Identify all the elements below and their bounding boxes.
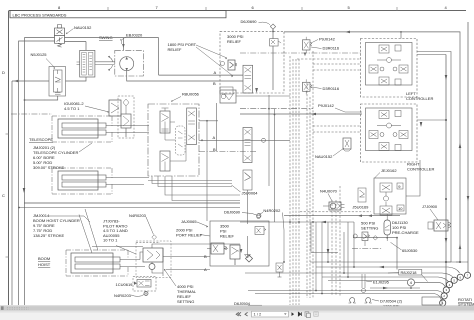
ladder horizontal wires [310, 262, 468, 273]
leader diagonals JMJ0014 to cylinder [79, 209, 98, 253]
left inlet components [121, 99, 131, 137]
bus line below bank box [148, 180, 232, 182]
valve at 344,138 [343, 138, 351, 151]
drain arrow [255, 88, 258, 93]
tall cartridge 2 [243, 128, 252, 163]
loop riser and port A line [159, 38, 243, 76]
dash-dot bus y=53 [240, 52, 362, 54]
flow arrows on ladder [379, 266, 384, 269]
port line A from bank [199, 139, 290, 141]
bottom right rect [422, 297, 442, 305]
terminal circles [440, 272, 471, 306]
prev btn [245, 312, 248, 316]
svg-text:C: C [2, 193, 5, 198]
dash-dot bus y=109 [240, 108, 313, 110]
numbered circle 4 [407, 279, 414, 286]
counterbalance dashed enclosure [136, 241, 171, 278]
grid ticks left [6, 133, 9, 135]
shaft coupling [95, 62, 115, 65]
JTJ0783 leader down [116, 246, 136, 255]
counterbalance valve boom [143, 248, 163, 262]
svg-text:CONTROLLER: CONTROLLER [406, 96, 433, 101]
small box lower left of relief box [220, 87, 233, 94]
relief valve inside box [207, 243, 228, 254]
grid ticks top [107, 7, 109, 11]
verticals from y222 to ladder [311, 222, 328, 294]
vertical drains center [269, 95, 275, 222]
page box [252, 311, 289, 317]
wire valve to loop riser [65, 37, 159, 39]
holding valve telescope [109, 100, 121, 116]
svg-text:D6J0690: D6J0690 [224, 210, 241, 215]
pump bottom wire [127, 71, 243, 81]
wire controller2 to bus [417, 119, 446, 121]
icon print [314, 312, 318, 316]
svg-text:E1J0295: E1J0295 [373, 279, 390, 284]
scrollbar band [0, 305, 474, 308]
svg-text:HOIST: HOIST [38, 262, 51, 267]
main boom spool [230, 245, 240, 265]
compensator dashed [176, 126, 186, 155]
bank internal wires [165, 122, 186, 161]
left border line [8, 11, 10, 306]
diamond bottom [246, 255, 253, 262]
svg-text:RELIEF: RELIEF [168, 47, 183, 52]
next btn [292, 312, 295, 316]
right vertical buses [467, 22, 469, 273]
svg-text:10: 10 [398, 206, 403, 211]
connect buses into ladder [446, 261, 460, 263]
drain valve on x=273 [270, 39, 279, 46]
N4U0070 motor [323, 202, 345, 210]
small cartridge left of JEJ block [358, 188, 366, 202]
svg-text:CONTROLLER: CONTROLLER [407, 167, 434, 172]
valve top right of bank [220, 90, 236, 103]
boom supply line [24, 202, 240, 204]
last page btn [298, 312, 301, 316]
svg-text:NAU0152: NAU0152 [315, 154, 333, 159]
svg-text:N4R0202: N4R0202 [263, 208, 281, 213]
R8J0218 boxed label [399, 270, 422, 276]
small comp center bottom [276, 263, 283, 277]
svg-text:N4U0070: N4U0070 [320, 189, 338, 194]
wire to NSJ0125 [12, 80, 49, 82]
thermal relief valve [144, 251, 146, 253]
svg-text:D3R0116: D3R0116 [323, 46, 340, 51]
wires controller to right [417, 52, 451, 263]
JEJ0162 block [374, 178, 406, 214]
relief valve A [228, 60, 237, 70]
svg-text:SETTING: SETTING [361, 226, 378, 231]
svg-text:N4R0203: N4R0203 [129, 213, 147, 218]
omega symbols [349, 298, 356, 303]
tall cartridge 1 [243, 65, 253, 93]
right controller dashed box [361, 104, 418, 162]
svg-text:309.00" STROKE: 309.00" STROKE [33, 165, 65, 170]
telescope dash-dot pilot line [11, 113, 52, 115]
wire valve to park block [65, 42, 87, 51]
svg-text:R8U0056: R8U0056 [182, 92, 200, 97]
valve NAU0152 [55, 25, 65, 48]
svg-text:10 TO 1: 10 TO 1 [103, 238, 118, 243]
wires cyl2 to bank [129, 126, 131, 185]
svg-text:A: A [214, 70, 217, 75]
nested bus rectangles below bank [152, 176, 240, 201]
dashed pilot box top edge [297, 58, 361, 60]
svg-text:EBJ0320: EBJ0320 [126, 33, 143, 38]
wire swing ports left [25, 38, 55, 305]
crossover relief dashed box [220, 31, 284, 93]
svg-text:J5U0169: J5U0169 [352, 204, 369, 209]
main valve bank dash-dot box [148, 104, 199, 176]
svg-text:B: B [213, 81, 216, 86]
svg-text:1CU0619: 1CU0619 [116, 282, 134, 287]
dashed pilot lines to controllers [313, 64, 361, 70]
toolbar [0, 313, 474, 320]
joystick internals left controller [369, 45, 408, 85]
svg-text:R8J0218: R8J0218 [401, 270, 418, 275]
svg-text:D6J0690: D6J0690 [241, 19, 258, 24]
bottom-left valve cluster of boom section [243, 170, 252, 258]
svg-text:D3R0116: D3R0116 [323, 86, 340, 91]
svg-text:138.25" STROKE: 138.25" STROKE [33, 233, 65, 238]
wire bank to 3500 box [199, 103, 218, 221]
dashed vertical bundle B [306, 83, 308, 298]
small valve N4R0202 [255, 227, 266, 235]
telescope cylinder 2 [52, 168, 130, 194]
NSJ0125 valve [49, 67, 66, 97]
boom hoist cylinder [66, 250, 145, 276]
svg-text:65J0530: 65J0530 [402, 248, 418, 253]
bank valve 1 [160, 108, 170, 133]
svg-text:N5J0125: N5J0125 [31, 52, 48, 57]
line y=222 with arrow [240, 221, 354, 223]
arrow down x=328 [327, 249, 330, 254]
svg-text:BOOM: BOOM [38, 256, 50, 261]
solid verticals right comps [344, 222, 354, 277]
telescope cylinder 1 [52, 116, 130, 142]
left controller inner box [366, 43, 413, 86]
pilot dashed line into counterbalance [136, 242, 160, 244]
arrows on buses [445, 75, 448, 80]
down arrow left bus [23, 188, 26, 193]
svg-text:N4R0203: N4R0203 [114, 293, 132, 298]
bank spool valve [187, 108, 197, 145]
icon pages [305, 312, 309, 316]
first page btn [236, 312, 241, 316]
svg-text:PORT RELIEF: PORT RELIEF [176, 233, 203, 238]
pump top feed wire [122, 38, 124, 51]
3500 PSI RELIEF box [210, 221, 269, 266]
svg-text:JEJ0162: JEJ0162 [381, 168, 397, 173]
svg-text:RELIEF: RELIEF [220, 234, 235, 239]
valve D3R0116 lower [303, 79, 313, 94]
top border line [9, 10, 466, 12]
svg-text:J7J0900: J7J0900 [422, 204, 438, 209]
inlet dashed box [118, 96, 134, 138]
svg-text:A: A [213, 135, 216, 140]
junction dots [445, 119, 447, 121]
svg-text:JAJ0065: JAJ0065 [181, 219, 197, 224]
port line B dash [199, 151, 256, 153]
bank valve 2 [160, 151, 170, 171]
svg-text:P9J0142: P9J0142 [318, 103, 335, 108]
svg-text:P9J0142: P9J0142 [319, 37, 336, 42]
left small comps near E1J0295 [362, 274, 366, 293]
svg-text:PRE-CHARGE: PRE-CHARGE [392, 230, 419, 235]
left controller dashed box [361, 39, 418, 98]
ladder junction dots [327, 261, 329, 263]
svg-text:1 / 2: 1 / 2 [254, 312, 263, 317]
J7J0900 valve [428, 220, 451, 231]
park brake block [80, 50, 95, 77]
svg-text:NAU0152: NAU0152 [74, 25, 92, 30]
svg-text:4.5 TO 1: 4.5 TO 1 [64, 106, 80, 111]
line y=114 with arrow [240, 113, 362, 115]
main drain line y=32 [284, 32, 460, 262]
pump EBJ0320 [115, 50, 144, 76]
drain symbol D6J0690 [270, 24, 275, 29]
accumulator D6J1130 [384, 220, 391, 235]
dashed vertical bundle A [289, 56, 291, 305]
wires JEJ block [406, 160, 420, 196]
valve D3R0116 upper [303, 37, 313, 53]
wires from cylinder section right [140, 252, 210, 270]
svg-text:TELESCOPE: TELESCOPE [29, 137, 53, 142]
dashed verticals bottom mid [332, 186, 340, 296]
svg-text:J5U0064: J5U0064 [242, 191, 259, 196]
drain port circle [257, 214, 261, 218]
svg-text:RELIEF: RELIEF [227, 39, 242, 44]
diamond symbol [152, 235, 157, 240]
svg-text:SETTING: SETTING [177, 299, 194, 304]
wire down from NSJ valve [25, 96, 58, 100]
accumulator return bus [353, 238, 397, 270]
svg-text:D: D [2, 70, 5, 75]
title box [10, 11, 226, 18]
short bus y=252.5 [311, 252, 338, 254]
svg-text:LBC PROCESS STANDARDS: LBC PROCESS STANDARDS [13, 12, 67, 17]
leader NAU0152 [66, 29, 74, 35]
